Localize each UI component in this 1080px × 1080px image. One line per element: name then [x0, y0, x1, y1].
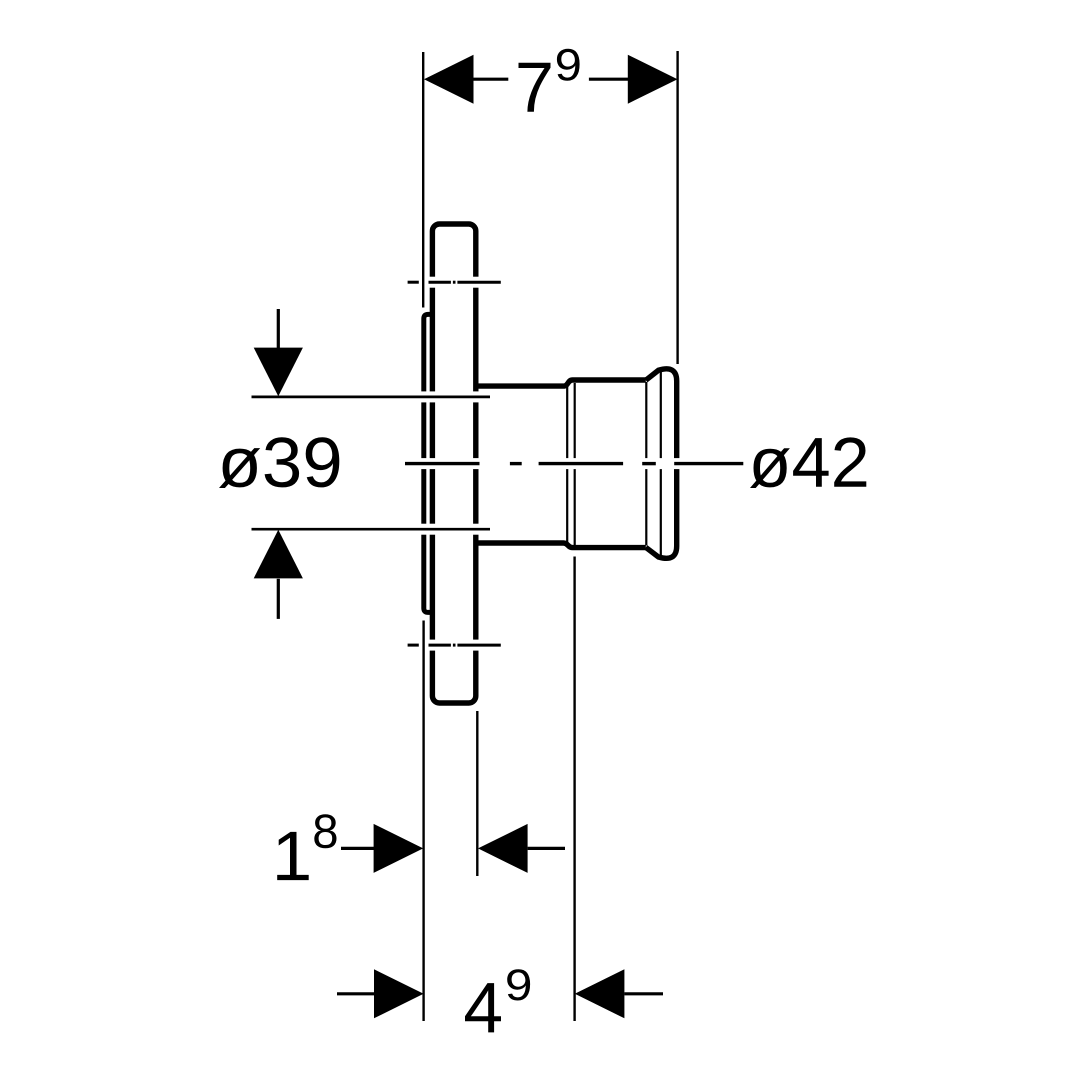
- extension line flange right: [476, 711, 478, 876]
- dia39 down arrow tail: [277, 309, 280, 348]
- bead groove line right: [574, 383, 576, 546]
- white gap band at upper centerline: [404, 277, 502, 288]
- label dia 39: [219, 437, 339, 488]
- dim 1-8 right tail: [528, 847, 565, 850]
- flange plate (side view, rounded rectangle): [432, 224, 475, 703]
- white gap band at main centerline: [403, 458, 744, 469]
- label 7 superscript 9: [519, 63, 551, 112]
- dia39 up arrow: [254, 530, 303, 579]
- label dia 42: [750, 437, 866, 488]
- back plate (thin clip behind flange): [424, 314, 431, 612]
- dim 1-8 left arrow: [374, 824, 424, 873]
- bead groove line left: [566, 383, 568, 546]
- bell lip fold line: [645, 382, 647, 546]
- socket bottom outline: [474, 543, 646, 548]
- dim 4-9 left tail: [337, 992, 375, 995]
- dim 7-9 right arrow: [628, 55, 678, 104]
- main centerline dash-dot: [405, 462, 743, 465]
- dia39 upper dimension line: [252, 396, 491, 399]
- dia39 up arrow tail: [277, 579, 280, 619]
- lower centerline dash-dot: [408, 644, 501, 647]
- dim 1-8 right arrow: [478, 824, 528, 873]
- extension line top left: [422, 52, 424, 308]
- dim 7-9 left arrow: [424, 55, 474, 104]
- label 4 superscript 9: [465, 983, 501, 1032]
- socket top outline: [474, 380, 646, 386]
- extension line socket mouth: [573, 557, 575, 1022]
- extension line bottom left: [422, 621, 424, 1022]
- bell rim outline: [646, 369, 677, 558]
- dim 4-9 left arrow: [374, 969, 424, 1018]
- dim 4-9 right arrow: [575, 969, 625, 1018]
- bell inner lip line: [660, 372, 662, 556]
- white gap band at upper dia39 line: [251, 391, 490, 402]
- dia39 lower dimension line: [252, 528, 491, 531]
- white gap band at lower dia39 line: [251, 524, 490, 535]
- label 1 superscript 8: [277, 832, 309, 880]
- extension line top right: [676, 51, 678, 364]
- white gap band at lower centerline: [404, 640, 502, 651]
- dim 7-9 dimension line right tail: [589, 78, 628, 81]
- dia39 down arrow: [254, 348, 303, 397]
- dim 4-9 right tail: [624, 992, 663, 995]
- dim 1-8 left tail: [341, 847, 374, 850]
- upper centerline dash-dot: [408, 281, 501, 284]
- dim 7-9 dimension line left tail: [474, 78, 509, 81]
